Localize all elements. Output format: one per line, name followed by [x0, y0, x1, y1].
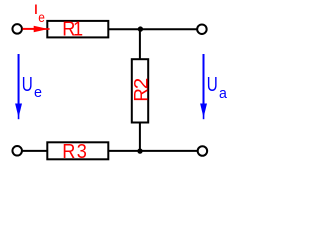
svg-text:e: e [34, 85, 42, 101]
svg-text:e: e [38, 9, 45, 25]
svg-text:R3: R3 [62, 141, 88, 163]
svg-text:2: 2 [131, 78, 152, 90]
svg-text:R: R [131, 88, 153, 101]
svg-text:U: U [207, 73, 218, 96]
svg-text:a: a [219, 86, 228, 103]
svg-text:U: U [22, 73, 33, 96]
svg-text:R1: R1 [62, 19, 82, 41]
